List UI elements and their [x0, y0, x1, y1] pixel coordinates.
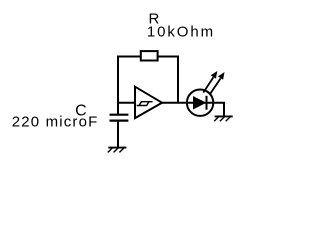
- LED D1 cathode bar: [206, 96, 208, 110]
- LED D1 emission arrow 1: [203, 71, 217, 93]
- op-amp U1 schmitt trigger triangle: [135, 87, 162, 118]
- wire capacitor bottom to ground: [117, 121, 119, 148]
- wire output from op-amp through LED to ground corner: [162, 103, 224, 117]
- LED D1 emission arrow 2: [210, 72, 224, 94]
- ground below capacitor: [108, 148, 127, 153]
- ground right of LED: [214, 116, 233, 121]
- wire resistor right lead + right vertical down to output: [159, 57, 179, 103]
- svg-text:220 microF: 220 microF: [12, 114, 98, 131]
- LED D1 diode triangle: [193, 96, 206, 110]
- LED D1 circle: [187, 90, 213, 116]
- svg-text:10kOhm: 10kOhm: [147, 24, 213, 41]
- hysteresis symbol inside U1: [137, 102, 153, 106]
- resistor R: [141, 51, 158, 60]
- wire input from node to op-amp: [118, 102, 135, 104]
- wire feedback left vertical + top segment to R: [118, 57, 140, 115]
- capacitor C plates: [110, 115, 129, 121]
